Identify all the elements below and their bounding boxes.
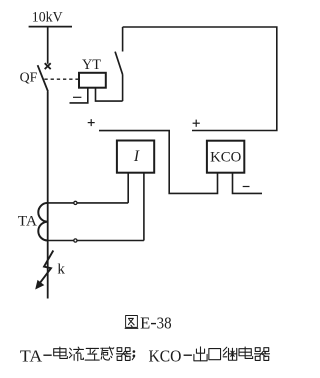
terminal minus at YT [73, 96, 81, 98]
svg-text:YT: YT [82, 57, 101, 73]
glyph 感 [101, 347, 114, 360]
relay KCO box [207, 141, 244, 173]
svg-text:10kV: 10kV [32, 9, 63, 26]
breaker QF blade [38, 65, 48, 91]
svg-text:k: k [57, 262, 65, 278]
glyph 电 (2) [239, 347, 253, 358]
svg-text:38: 38 [157, 314, 172, 333]
terminal minus at KCO [243, 186, 250, 188]
wire TA top secondary [48, 202, 129, 204]
breaker QF contact cross [45, 63, 51, 69]
glyph 互 [85, 348, 99, 360]
svg-text:KCO: KCO [210, 149, 241, 165]
wire QF-YT mechanical dashed link [44, 78, 78, 80]
fault k lightning arrow [40, 251, 53, 283]
caption figure number 图E-38 [125, 314, 172, 333]
glyph 流 [69, 347, 83, 361]
terminal node circle top [74, 201, 77, 204]
glyph 电 [54, 347, 68, 358]
coil YT trip box [79, 73, 106, 88]
wire YT right leg [96, 88, 123, 101]
wire KCO right leg to minus terminal [233, 173, 263, 194]
wire 10kV busbar [29, 26, 72, 28]
wire top loop: top horizontal, right vertical, plus feed [123, 27, 277, 131]
wire I right leg [143, 173, 145, 241]
caption legend TA-电流互感器；KCO-出口继电器 [20, 346, 270, 365]
svg-text:KCO: KCO [149, 346, 182, 365]
terminal node circle bottom [74, 239, 77, 242]
svg-text:E: E [140, 314, 150, 333]
svg-text:TA: TA [20, 346, 42, 365]
wire bus drop to QF [47, 27, 49, 64]
wire feeder vertical (QF to fault) [47, 92, 49, 299]
contact KCO switch upper lead [122, 27, 124, 52]
svg-text:I: I [133, 148, 140, 165]
wire I left leg [127, 173, 129, 203]
wire TA bottom secondary [48, 240, 144, 242]
glyph 器 (2) [255, 348, 270, 361]
transformer TA secondary arcs [38, 203, 47, 241]
glyph 继 [223, 347, 237, 360]
terminal plus left [88, 119, 95, 126]
wire YT left leg to minus terminal [70, 88, 88, 103]
glyph fullwidth semicolon [132, 350, 135, 359]
contact KCO switch lower lead [122, 75, 124, 102]
glyph 出 [194, 347, 207, 361]
wire left plus feed routed to KCO left leg [99, 131, 218, 194]
glyph 器 [116, 348, 130, 361]
svg-text:TA: TA [18, 213, 37, 229]
terminal plus right [193, 120, 200, 127]
glyph 口 [209, 349, 221, 360]
contact KCO switch blade [115, 52, 123, 75]
svg-text:QF: QF [20, 71, 38, 86]
relay I box (current relay) [117, 141, 154, 173]
